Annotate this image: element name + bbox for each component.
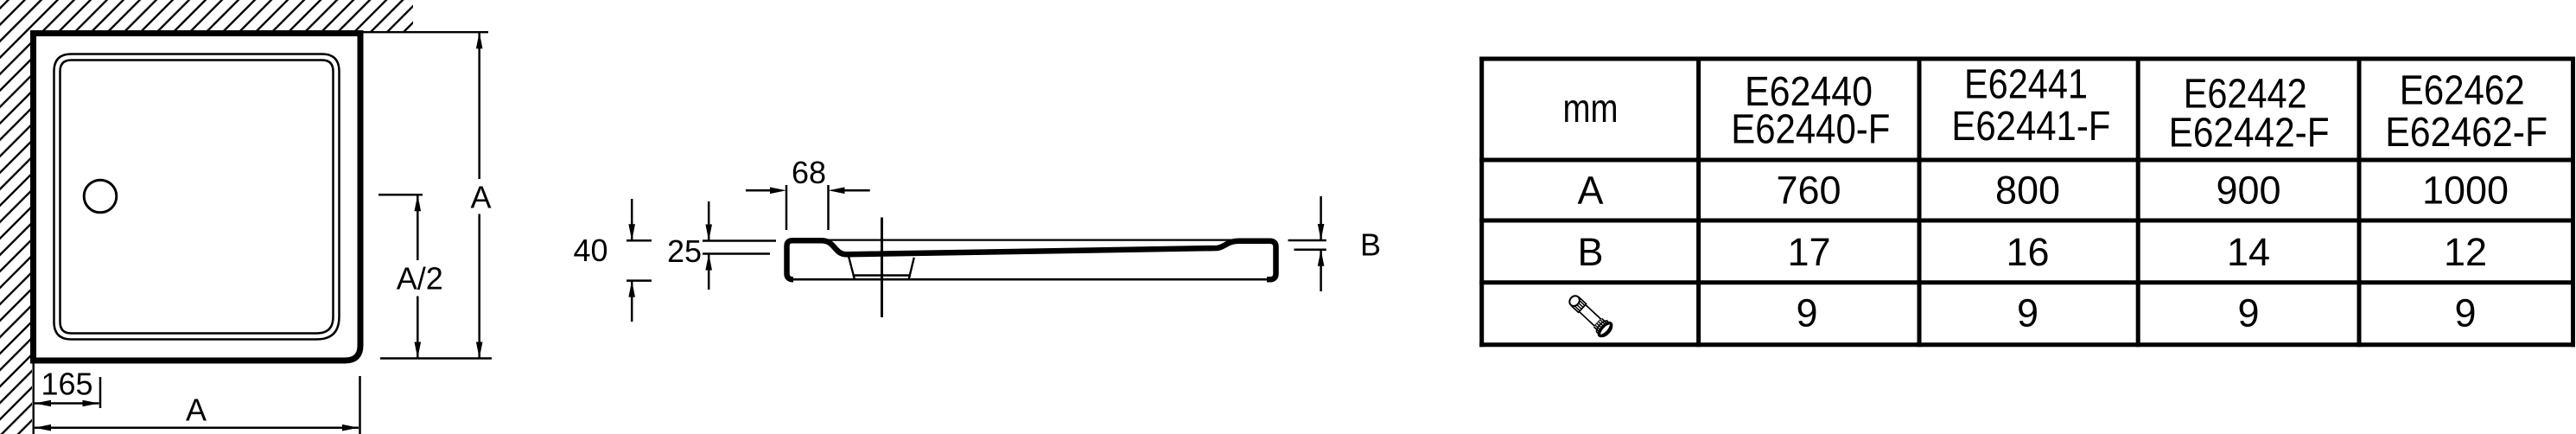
svg-text:mm: mm: [1563, 86, 1619, 131]
svg-text:900: 900: [2216, 169, 2280, 213]
svg-text:9: 9: [2237, 291, 2259, 335]
svg-text:E62440-F: E62440-F: [1731, 107, 1890, 153]
wall edge / extension line top: [362, 31, 488, 33]
bolt icon: [1566, 292, 1614, 339]
dimension 40: [573, 199, 652, 322]
svg-text:E62441-F: E62441-F: [1951, 104, 2110, 150]
svg-text:E62442-F: E62442-F: [2169, 111, 2330, 156]
svg-text:40: 40: [573, 233, 607, 268]
svg-text:800: 800: [1995, 169, 2060, 213]
svg-text:E62441: E62441: [1964, 62, 2088, 108]
tray outer rim: [34, 34, 361, 361]
dimension A right: [470, 32, 491, 358]
svg-text:E62462: E62462: [2400, 68, 2525, 114]
table row A: [1577, 169, 2509, 213]
svg-text:A: A: [1577, 169, 1603, 213]
svg-text:16: 16: [2006, 230, 2049, 274]
section profile thick: [787, 240, 1276, 279]
svg-text:25: 25: [667, 233, 702, 269]
svg-text:17: 17: [1787, 230, 1830, 274]
drain circle: [84, 180, 117, 213]
extension line bottom right: [380, 357, 492, 360]
table row feet (bolt): [1796, 291, 2476, 335]
svg-text:E62462-F: E62462-F: [2385, 110, 2547, 156]
svg-text:68: 68: [792, 155, 826, 190]
svg-text:9: 9: [1796, 291, 1817, 335]
TABLE: [1479, 57, 2575, 348]
dimension A bottom: [35, 376, 360, 434]
svg-text:760: 760: [1776, 169, 1841, 213]
drain recess right slant: [909, 258, 914, 279]
table row B: [1577, 230, 2487, 274]
dimension A/2: [378, 195, 443, 358]
section bottom line: [789, 278, 1274, 281]
svg-text:1000: 1000: [2422, 169, 2509, 213]
svg-text:12: 12: [2444, 230, 2487, 274]
tray inner rim line 2: [60, 61, 334, 334]
drain bottom line: [853, 274, 912, 276]
dimension 25: [667, 201, 776, 290]
svg-text:B: B: [1577, 230, 1603, 274]
svg-text:9: 9: [2017, 291, 2039, 335]
svg-text:A/2: A/2: [397, 260, 443, 296]
svg-text:A: A: [186, 393, 207, 428]
dimension 68: [746, 155, 870, 230]
wall hatching: [0, 0, 413, 434]
svg-text:A: A: [470, 179, 491, 214]
svg-text:B: B: [1360, 227, 1381, 263]
dimension 165: [35, 367, 100, 409]
svg-text:14: 14: [2227, 230, 2270, 274]
table header texts: [1563, 62, 2548, 156]
centerline: [881, 218, 883, 318]
dimension B: [1288, 196, 1381, 291]
tray inner rim line 1: [54, 54, 340, 340]
svg-text:165: 165: [41, 367, 92, 402]
wall edge / extension line left: [33, 362, 35, 434]
section top rim thin line: [823, 239, 1231, 241]
svg-text:9: 9: [2454, 291, 2476, 335]
drain recess left slant: [849, 257, 855, 279]
